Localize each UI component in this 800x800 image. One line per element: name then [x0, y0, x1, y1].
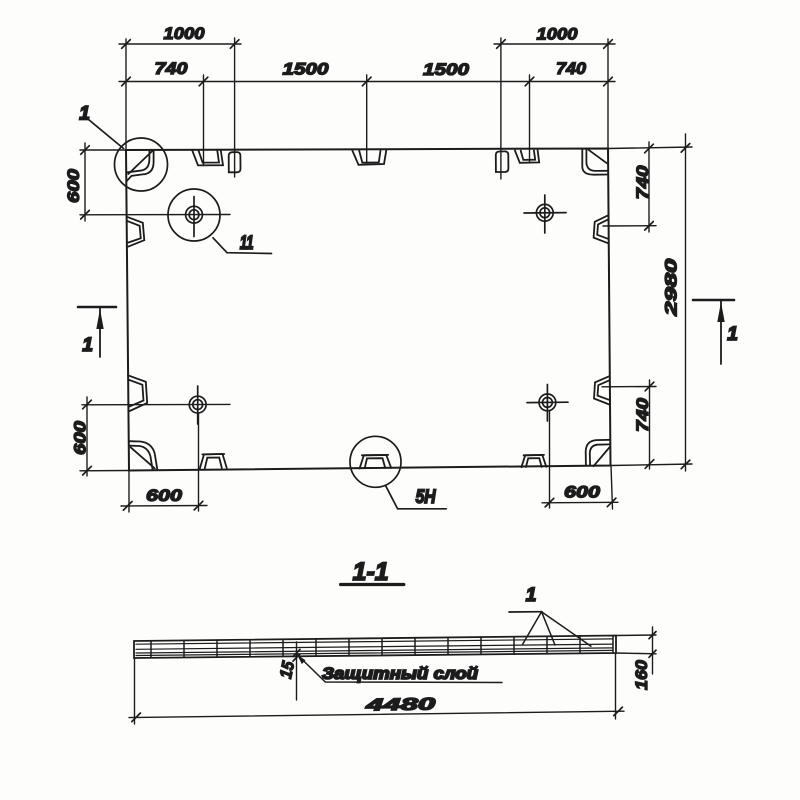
lifting recess trapezoid, bottom edge left	[200, 454, 227, 469]
section slab outline	[134, 636, 616, 659]
svg-text:740: 740	[556, 59, 587, 78]
right dimension 740 (lower)	[602, 380, 656, 469]
lifting recess trapezoid, bottom edge right	[521, 455, 546, 467]
bottom dimension 600 (right)	[542, 411, 618, 509]
lifting recess trapezoid, top edge at 740 from left	[192, 150, 223, 165]
svg-text:740: 740	[155, 59, 189, 78]
svg-text:1: 1	[727, 324, 738, 345]
svg-text:600: 600	[71, 420, 90, 455]
svg-text:600: 600	[146, 486, 183, 505]
svg-text:600: 600	[64, 168, 83, 203]
dimension 15 (protective layer)	[276, 642, 300, 700]
corner chamfer detail top-right	[582, 149, 608, 175]
lifting recess trapezoid, left edge upper	[127, 217, 144, 247]
leader and label 5H (bottom trapezoid detail)	[385, 485, 446, 509]
lifting recess trapezoid, top edge at 740 from right	[515, 150, 539, 163]
right dimension 2980 overall	[608, 134, 692, 471]
svg-text:5H: 5H	[416, 487, 437, 508]
lifting recess trapezoid, right edge lower	[594, 376, 609, 404]
section reinforcement mesh lines	[136, 639, 613, 656]
svg-text:1000: 1000	[537, 25, 579, 44]
leader and label 1 (mesh position in section)	[509, 585, 591, 646]
svg-text:740: 740	[633, 165, 652, 200]
dimension row 1000 (left)	[119, 24, 241, 48]
svg-text:1: 1	[82, 335, 93, 356]
left dimension 600 (lower)	[71, 397, 231, 476]
left dimension 600 (upper)	[64, 143, 230, 221]
svg-text:740: 740	[633, 397, 652, 432]
leader and label 1 (top-left corner detail)	[79, 104, 123, 149]
svg-text:4480: 4480	[364, 695, 436, 715]
dimension row 1000 (right)	[494, 25, 615, 49]
svg-text:160: 160	[632, 659, 651, 690]
lifting loop hole bottom-left	[189, 386, 206, 424]
bottom dimension 600 (left)	[121, 413, 207, 512]
dimension 4480 overall length	[129, 654, 624, 724]
lifting recess trapezoid, right edge upper	[594, 215, 608, 243]
drain slot, top edge at 1000 from right	[496, 151, 509, 172]
corner chamfer detail bottom-left	[129, 441, 157, 469]
svg-text:11: 11	[240, 233, 254, 254]
svg-text:Защитный слой: Защитный слой	[322, 664, 479, 683]
svg-text:1500: 1500	[423, 60, 470, 79]
dimension row 740-1500-1500-740	[119, 59, 615, 86]
lifting recess trapezoid, bottom edge centre (detail 5H)	[360, 455, 392, 469]
svg-text:1-1: 1-1	[353, 558, 389, 586]
svg-text:1000: 1000	[164, 24, 206, 43]
extension lines for top dimensions	[126, 38, 608, 179]
detail callout circle on hole 11	[168, 189, 220, 241]
drain slot, top edge at 1000 from left	[229, 152, 241, 172]
lifting loop hole top-right	[524, 195, 566, 233]
lifting recess trapezoid, top edge centre	[352, 150, 386, 165]
section mesh vertical ticks	[151, 636, 613, 658]
lifting loop hole top-left	[186, 197, 203, 237]
detail callout circle on top-left corner	[115, 138, 168, 191]
svg-text:15: 15	[276, 659, 298, 680]
section title 1-1	[341, 558, 404, 586]
svg-text:1: 1	[79, 104, 90, 125]
section mark 1 (left)	[78, 307, 116, 357]
detail callout circle 5H on bottom trapezoid	[350, 436, 401, 487]
lifting recess trapezoid, left edge lower	[128, 375, 147, 411]
leader and label 11 (hole detail)	[213, 233, 272, 254]
protective layer leader arrow and text	[297, 655, 502, 684]
right dimension 740 (upper)	[603, 142, 656, 232]
slab outline (plan view)	[126, 149, 611, 471]
lifting loop hole bottom-right	[527, 385, 568, 422]
svg-text:1500: 1500	[283, 60, 330, 79]
svg-text:2980: 2980	[662, 258, 681, 317]
svg-text:1: 1	[526, 585, 537, 606]
dimension 160 (slab thickness)	[616, 627, 656, 690]
corner chamfer detail top-left	[127, 150, 154, 181]
corner chamfer detail bottom-right	[586, 440, 610, 466]
section mark 1 (right)	[693, 300, 738, 364]
svg-text:600: 600	[564, 483, 601, 502]
